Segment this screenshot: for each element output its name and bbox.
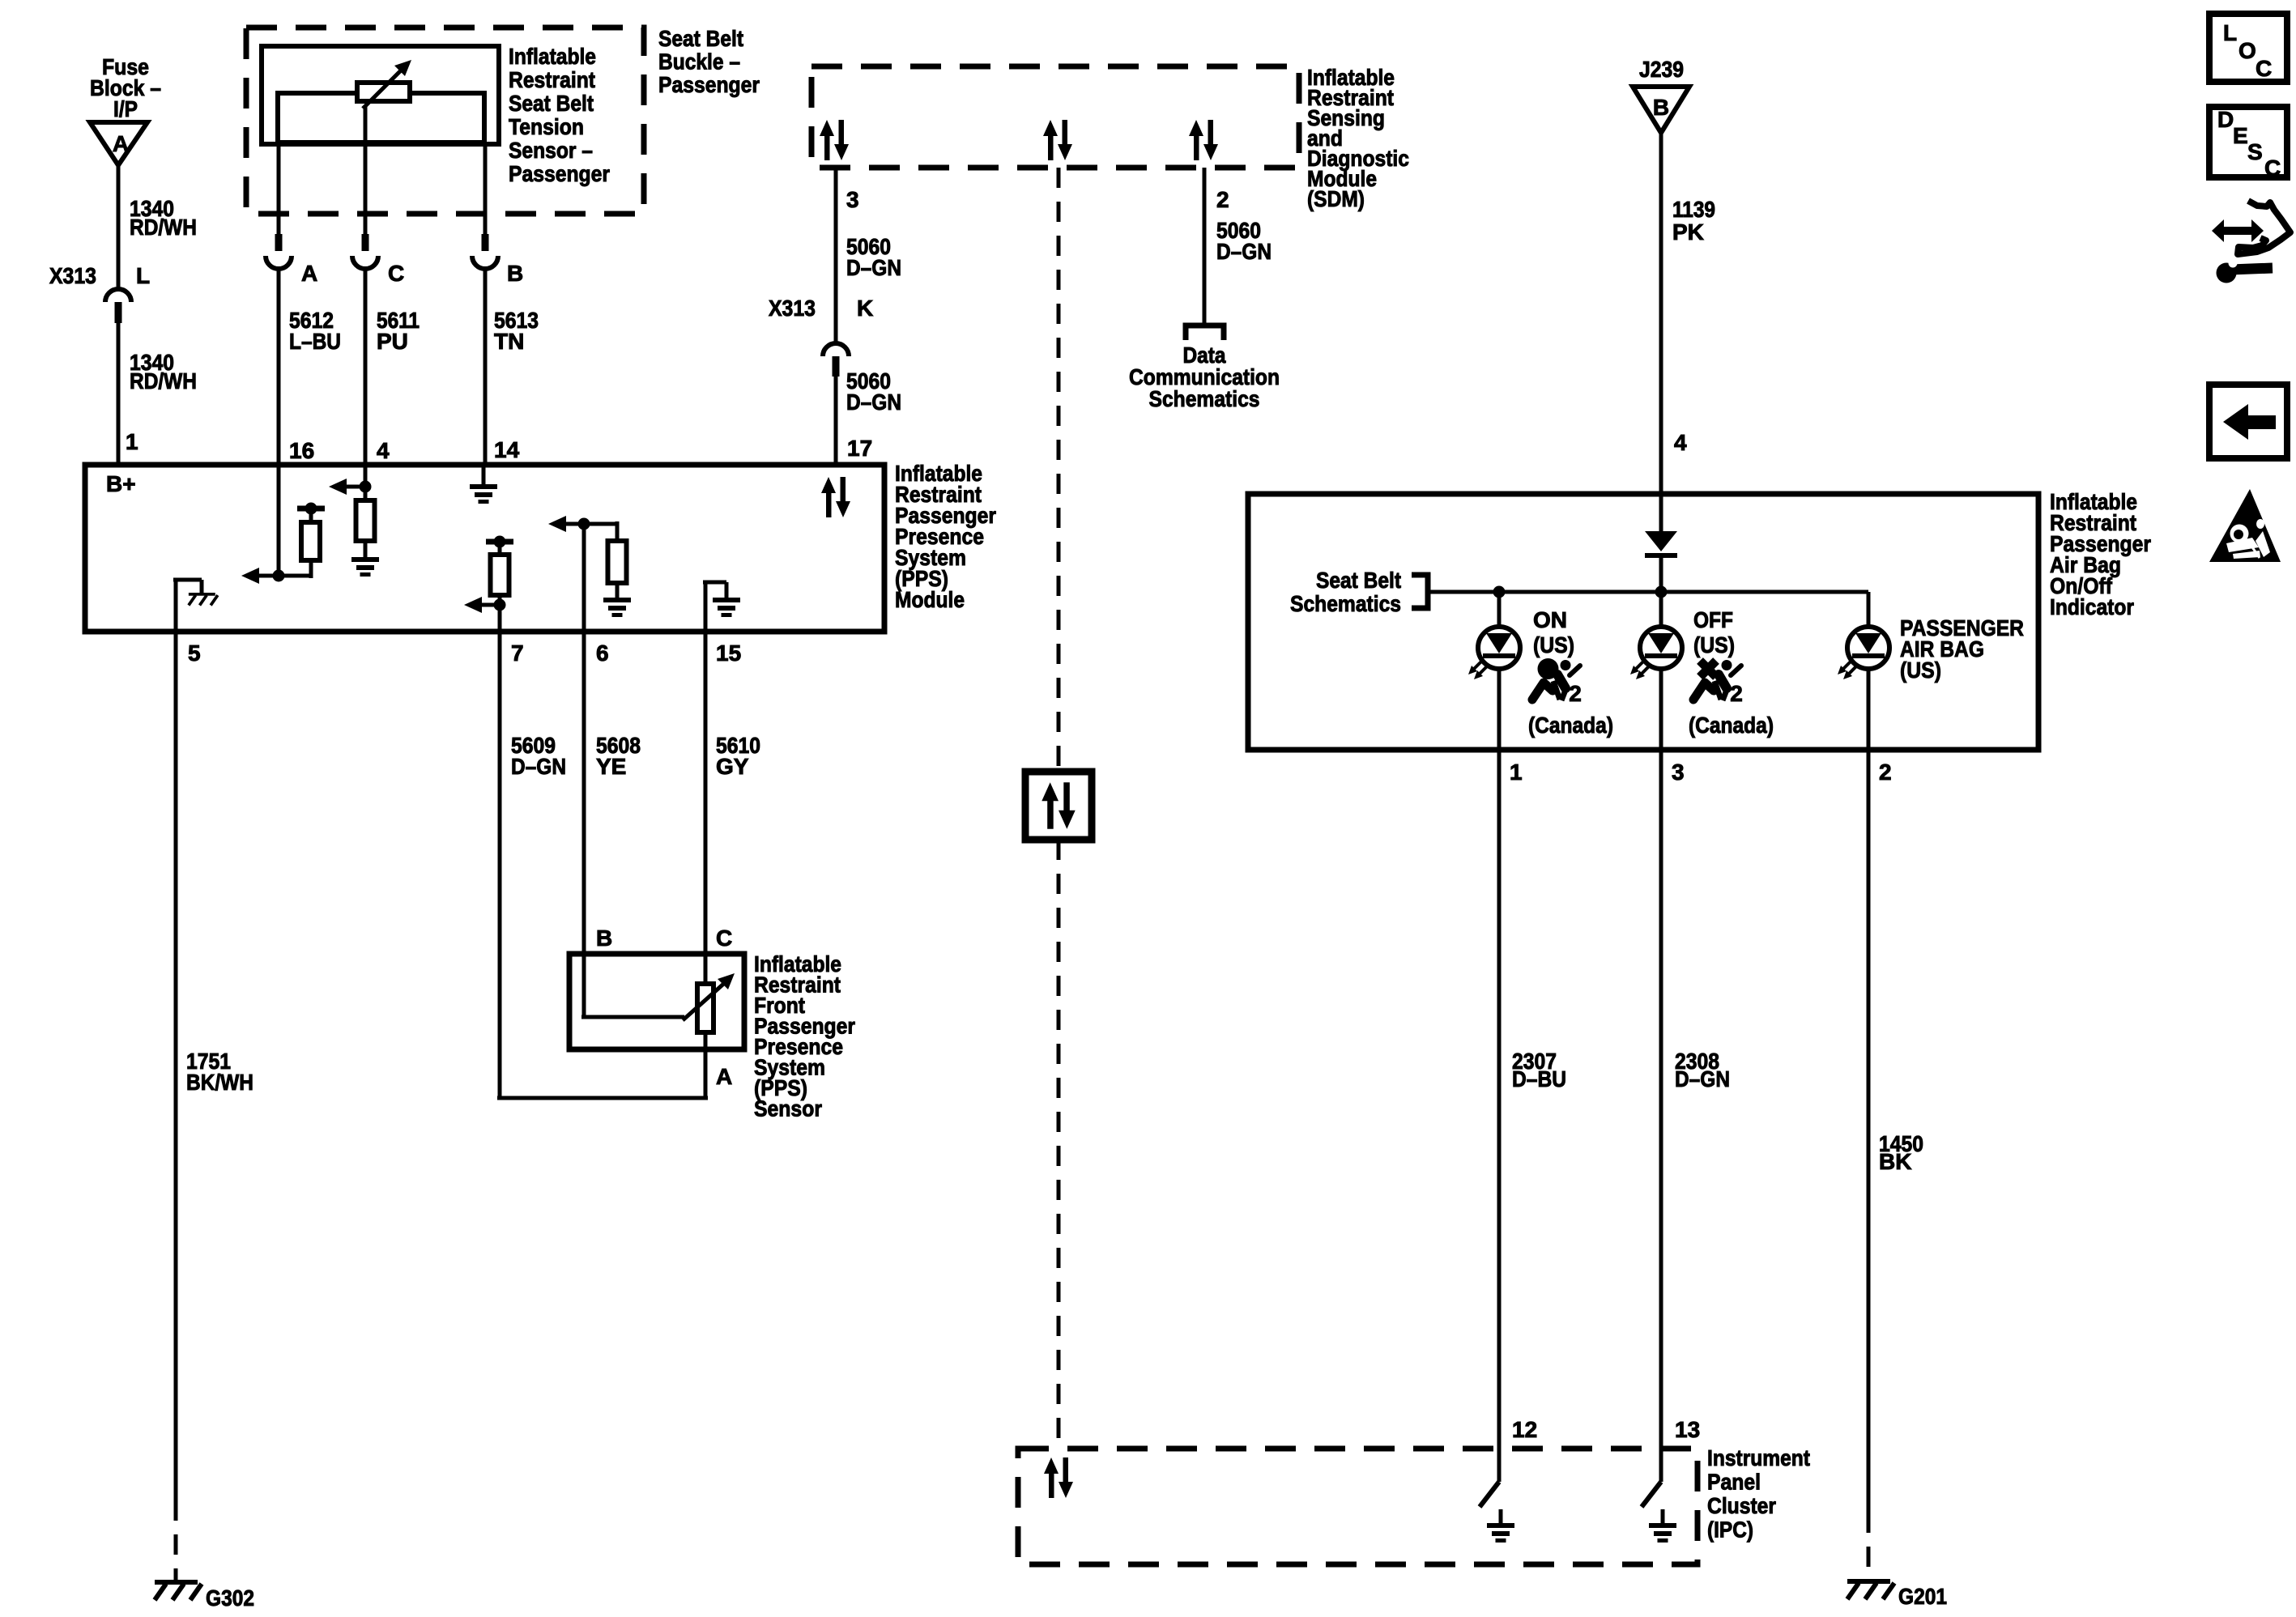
airbag warning triangle icon: [2209, 489, 2281, 562]
svg-text:G302: G302: [206, 1585, 254, 1611]
wire 5611 PU: [364, 269, 368, 467]
resistor R3: [491, 555, 509, 595]
module internal ground (pin4 pull-down): [351, 557, 379, 577]
svg-text:1139: 1139: [1672, 197, 1715, 222]
svg-text:D–GN: D–GN: [846, 255, 901, 280]
svg-text:RD/WH: RD/WH: [130, 368, 197, 394]
wire 1450 BK: [1867, 750, 1871, 1513]
svg-text:E: E: [2233, 123, 2248, 148]
module internal: R3 top wire and rail tap: [498, 543, 502, 555]
svg-text:C: C: [2264, 155, 2281, 181]
svg-text:6: 6: [596, 640, 609, 666]
wire 1751 BK/WH: [174, 632, 178, 1500]
junction node on bus (LED1): [1493, 586, 1506, 598]
svg-text:PU: PU: [377, 329, 408, 354]
potentiometer R tension sensor body: [357, 83, 410, 101]
junction node at pin16 net: [273, 570, 285, 582]
svg-text:16: 16: [289, 438, 314, 463]
svg-text:15: 15: [716, 640, 741, 666]
electrical repair icon (double arrow, harness, wrench): [2238, 201, 2290, 254]
module internal: wire to resistor R3: [498, 595, 502, 605]
airbag pictograph (OFF, crossed): [1693, 660, 1741, 700]
svg-text:Seat Belt: Seat Belt: [1316, 568, 1401, 593]
module internal: pin6 sense wire: [582, 524, 586, 632]
junction node on bus (LED2): [1655, 586, 1668, 598]
buckle connector cavity A female arc: [266, 256, 292, 269]
svg-text:PK: PK: [1672, 219, 1704, 245]
svg-text:Sensor –: Sensor –: [509, 138, 593, 163]
back arrow legend box: [2209, 385, 2287, 458]
indicator feed bus wire: [1428, 590, 1868, 594]
svg-text:Schematics: Schematics: [1290, 591, 1401, 616]
wire 1139 PK: [1659, 133, 1663, 494]
buckle connector cavity C female arc: [352, 256, 378, 269]
svg-text:(SDM): (SDM): [1307, 186, 1365, 211]
svg-text:L: L: [136, 263, 150, 288]
svg-text:D–GN: D–GN: [1216, 239, 1272, 264]
module internal: pin14 wire to ground: [482, 465, 486, 484]
module internal: pin5 wire to chassis ground: [174, 580, 178, 632]
module internal: pin7 sense wire: [498, 605, 502, 632]
svg-text:2: 2: [1879, 760, 1892, 785]
svg-text:L: L: [2223, 20, 2237, 45]
svg-text:Schematics: Schematics: [1149, 386, 1260, 411]
SDM serial data symbol (right): [1189, 120, 1218, 160]
wire LED2 branch: [1659, 592, 1663, 750]
buckle connector pin B male terminal: [482, 234, 489, 251]
svg-text:D–GN: D–GN: [1675, 1066, 1730, 1091]
SDM serial data symbol (left): [820, 120, 849, 160]
tension sensor outer box: [262, 46, 499, 144]
svg-text:Seat Belt: Seat Belt: [509, 91, 594, 116]
SDM serial data symbol (middle): [1043, 120, 1072, 160]
svg-text:RD/WH: RD/WH: [130, 215, 197, 240]
svg-text:O: O: [2238, 38, 2256, 63]
wire diode to bus junction: [1659, 558, 1663, 592]
svg-text:1: 1: [126, 429, 138, 454]
module internal: wire to resistor R4: [584, 522, 617, 526]
svg-text:2: 2: [1569, 681, 1582, 706]
wire 5060 D-GN lower segment (to PPS pin 17): [834, 377, 838, 465]
off-page connector bracket to Data Communication Schematics: [1186, 326, 1224, 340]
PPS sensor box: [569, 954, 744, 1049]
fuse block connector triangle A: [90, 122, 147, 165]
connector X313 cavity K female arc: [823, 343, 849, 356]
svg-text:(Canada): (Canada): [1689, 713, 1774, 738]
junction node at pin4 net: [360, 481, 372, 493]
svg-text:B: B: [1653, 95, 1669, 120]
wire pin4 to diode: [1659, 494, 1663, 533]
svg-text:2: 2: [1730, 681, 1743, 706]
svg-text:G201: G201: [1898, 1584, 1947, 1609]
wire 1751 dashed tail to ground: [174, 1500, 178, 1580]
IPC internal switch (pin 12): [1497, 1449, 1502, 1482]
IPC internal ground (pin 12): [1499, 1509, 1503, 1525]
svg-text:Restraint: Restraint: [509, 67, 595, 92]
wire 5609 D-GN (pin7 to sensor pin A loop): [498, 632, 502, 1098]
svg-text:C: C: [388, 261, 404, 286]
potentiometer wiper arrow: [363, 69, 403, 109]
resistor R1: [301, 522, 320, 560]
svg-text:BK: BK: [1879, 1149, 1911, 1174]
off-page connector bracket (Seat Belt Schematics): [1412, 575, 1428, 608]
potentiometer wiper arrow (PPS sensor): [683, 981, 727, 1020]
svg-text:B: B: [596, 926, 612, 951]
module internal: wire to resistor R1: [279, 574, 311, 578]
module internal chassis ground (pin5): [189, 593, 218, 606]
module internal: pin4 sense wire: [364, 465, 368, 487]
svg-text:D–GN: D–GN: [846, 389, 901, 415]
svg-text:Indicator: Indicator: [2050, 594, 2134, 619]
svg-text:Panel: Panel: [1707, 1470, 1761, 1495]
buckle connector cavity B female arc: [472, 256, 498, 269]
buckle connector pin C male terminal: [362, 234, 369, 251]
svg-text:D–BU: D–BU: [1512, 1066, 1566, 1091]
indicator box: Inflatable Restraint Passenger Air Bag On/Off Indicator: [1248, 494, 2038, 750]
wire 1340 RD/WH lower segment: [117, 323, 121, 467]
junction node at pin6 net: [578, 518, 590, 530]
SDM dashed enclosure: [811, 66, 1299, 168]
wire buckle pin C lead: [364, 106, 368, 234]
buckle connector pin A male terminal: [275, 234, 283, 251]
connector X313 pin K male terminal: [833, 356, 840, 377]
IPC internal ground (pin 13): [1661, 1509, 1665, 1525]
wire 2307 D-BU: [1497, 750, 1502, 1449]
svg-text:YE: YE: [596, 754, 626, 779]
junction dot on R3 rail tap: [494, 536, 506, 548]
ground G302 chassis symbol: [155, 1580, 202, 1600]
junction node at pin7 net: [494, 599, 506, 611]
svg-text:7: 7: [511, 640, 524, 666]
svg-text:3: 3: [846, 187, 859, 212]
svg-text:K: K: [857, 296, 873, 321]
svg-text:(US): (US): [1900, 657, 1941, 683]
module internal: wire to resistor R2: [364, 487, 368, 500]
svg-text:13: 13: [1675, 1417, 1700, 1442]
svg-text:Passenger: Passenger: [658, 72, 760, 97]
module internal: R4 to ground wire: [616, 583, 620, 598]
module internal: arrow to internal circuits (pin4): [347, 485, 365, 489]
svg-text:Instrument: Instrument: [1707, 1445, 1810, 1470]
svg-text:J239: J239: [1639, 57, 1684, 82]
svg-text:Sensor: Sensor: [754, 1096, 822, 1121]
svg-text:1: 1: [1510, 760, 1523, 785]
dashed serial data bus wire (SDM to splice box): [1057, 168, 1061, 772]
tension sensor inner box: [278, 93, 484, 143]
sensor internal: pin C wire through potentiometer: [704, 954, 708, 984]
wire buckle pin A lead: [277, 143, 281, 234]
dashed serial data bus wire (splice box to IPC): [1057, 840, 1061, 1449]
svg-text:Inflatable: Inflatable: [509, 44, 596, 69]
wire 5610 GY (pin15 to sensor pin C): [704, 632, 708, 954]
module internal: arrow to internal circuits (pin16): [258, 574, 279, 578]
module internal ground (pin6 pull-down): [603, 598, 631, 617]
svg-text:I/P: I/P: [113, 96, 138, 121]
LED1 ON indicator lamp: [1468, 627, 1520, 679]
LED2 OFF indicator lamp: [1630, 627, 1682, 679]
svg-text:Buckle –: Buckle –: [658, 49, 740, 74]
svg-text:GY: GY: [716, 754, 749, 779]
svg-text:L–BU: L–BU: [289, 329, 341, 354]
svg-text:B+: B+: [106, 471, 136, 496]
LED3 PASSENGER AIR BAG indicator lamp: [1838, 627, 1889, 679]
wire 5060 D-GN upper segment (SDM pin 3): [834, 168, 838, 343]
module internal ground (pin14): [470, 484, 497, 504]
sensor internal: pin B wire and bridge: [582, 954, 586, 1017]
svg-text:C: C: [716, 926, 732, 951]
svg-text:14: 14: [494, 437, 520, 462]
module internal ground (pin15): [713, 598, 740, 617]
resistor R2: [356, 500, 375, 541]
svg-text:BK/WH: BK/WH: [186, 1070, 253, 1095]
wire 5613 TN: [483, 269, 488, 467]
DESC legend box: [2209, 107, 2287, 177]
PPS module box: [85, 465, 884, 632]
svg-text:A: A: [113, 131, 129, 156]
wire 5608 YE (pin6 to sensor pin B): [582, 632, 586, 954]
ground G201 chassis symbol: [1847, 1579, 1894, 1599]
wire 2308 D-GN: [1659, 750, 1663, 1449]
wire 1450 BK dashed tail: [1867, 1513, 1871, 1577]
seat belt buckle dashed enclosure: [246, 28, 644, 214]
svg-text:A: A: [301, 261, 317, 286]
svg-text:D: D: [2217, 107, 2234, 132]
svg-text:(US): (US): [1533, 632, 1574, 657]
module internal: R1 top wire and rail tap: [309, 509, 313, 522]
svg-text:X313: X313: [769, 296, 816, 321]
svg-text:5: 5: [188, 640, 201, 666]
svg-text:Cluster: Cluster: [1707, 1493, 1776, 1518]
svg-text:Module: Module: [895, 587, 965, 612]
resistor R4: [608, 541, 627, 583]
serial data link box: [1025, 772, 1092, 840]
svg-text:(Canada): (Canada): [1528, 713, 1613, 738]
serial data link arrows: [1042, 782, 1075, 829]
svg-text:2: 2: [1216, 187, 1229, 212]
svg-text:OFF: OFF: [1693, 607, 1733, 632]
connector X313 pin L male terminal: [115, 302, 122, 323]
module internal serial data symbol at pin17: [821, 477, 850, 517]
svg-text:Passenger: Passenger: [509, 161, 610, 186]
wire buckle pin B lead: [483, 143, 488, 234]
svg-text:ON: ON: [1533, 607, 1567, 632]
svg-text:17: 17: [847, 436, 872, 461]
IPC dashed enclosure: [1018, 1449, 1698, 1564]
wire 1340 RD/WH upper segment: [117, 165, 121, 289]
svg-text:B: B: [507, 261, 523, 286]
svg-text:X313: X313: [49, 263, 96, 288]
svg-text:3: 3: [1672, 760, 1685, 785]
svg-text:Tension: Tension: [509, 114, 584, 139]
module internal: arrow to internal circuits (pin6): [566, 522, 584, 526]
wire LED1 branch: [1497, 592, 1502, 750]
svg-text:D–GN: D–GN: [511, 754, 566, 779]
wire 5060 D-GN (SDM pin 2 drop): [1203, 168, 1207, 323]
svg-text:4: 4: [1674, 430, 1687, 455]
svg-text:A: A: [716, 1064, 732, 1089]
junction dot on R1 rail tap: [305, 503, 317, 515]
splice J239 triangle: [1633, 87, 1689, 133]
svg-text:S: S: [2247, 139, 2263, 164]
svg-text:(IPC): (IPC): [1707, 1517, 1753, 1543]
IPC serial data symbol: [1044, 1457, 1073, 1498]
LOC legend box: [2209, 14, 2287, 82]
airbag pictograph (ON): [1532, 658, 1580, 700]
module internal: pin15 wire to ground: [704, 582, 708, 632]
svg-text:C: C: [2256, 56, 2272, 81]
module internal: R2 to ground wire: [364, 541, 368, 557]
wire sensor pin A below box: [704, 1049, 708, 1098]
IPC internal switch (pin 13): [1659, 1449, 1663, 1482]
module internal: arrow to internal circuits (pin7): [482, 603, 500, 607]
diode D1: [1645, 531, 1677, 551]
svg-text:Seat Belt: Seat Belt: [658, 26, 743, 51]
svg-text:TN: TN: [494, 329, 524, 354]
svg-text:(US): (US): [1693, 632, 1735, 657]
potentiometer R PPS sensor body: [697, 984, 714, 1032]
wire 5612 L-BU: [277, 269, 281, 467]
module internal: pin16 sense wire: [277, 465, 281, 576]
svg-text:12: 12: [1512, 1417, 1537, 1442]
svg-text:4: 4: [377, 438, 390, 463]
connector X313 cavity L female arc: [105, 289, 131, 302]
